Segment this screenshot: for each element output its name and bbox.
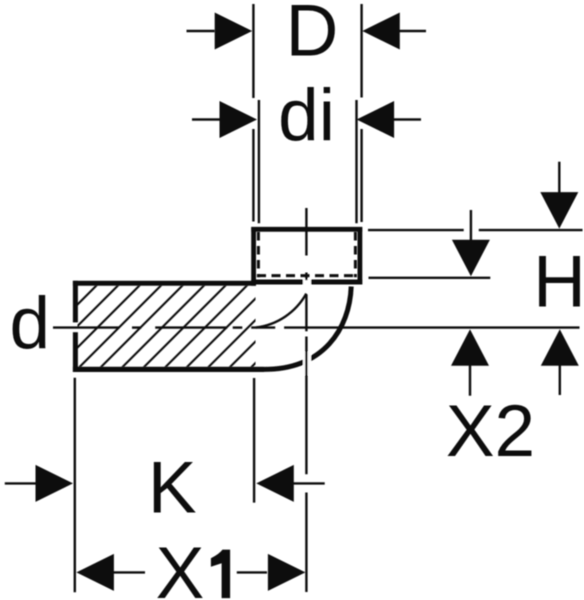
dimension line D right tail bbox=[399, 30, 426, 32]
svg-text:X2: X2 bbox=[446, 391, 535, 472]
dimension line di left tail bbox=[192, 118, 220, 120]
arrow X1 right bbox=[268, 554, 306, 591]
pipe bore inner arc bbox=[256, 294, 306, 328]
arrow H up bbox=[541, 329, 579, 366]
X1 dimension right tail bbox=[237, 571, 267, 573]
arrow D left bbox=[215, 13, 253, 50]
K dimension right tail bbox=[294, 482, 325, 484]
socket top edge bbox=[251, 227, 362, 232]
arrow H down bbox=[558, 162, 560, 193]
svg-text:d: d bbox=[9, 283, 50, 364]
X1 dimension left tail bbox=[113, 571, 146, 573]
gap patch on socket bottom edge bbox=[303, 279, 311, 285]
socket bottom edge bbox=[251, 280, 362, 285]
vertical centreline and X1 right extension bbox=[305, 208, 307, 592]
pipe left edge bbox=[73, 281, 78, 372]
gap patch on outer arc bbox=[303, 352, 311, 375]
extension line D right bbox=[360, 4, 362, 222]
socket bore dashed right bbox=[354, 232, 357, 277]
X2 top reference line bbox=[369, 277, 491, 279]
svg-text:X: X bbox=[156, 533, 205, 600]
extension line di left bbox=[258, 100, 260, 223]
pipe top edge bbox=[73, 281, 256, 286]
arrow K right bbox=[256, 465, 294, 502]
pipe left extension line bbox=[74, 378, 76, 593]
arrow D right bbox=[362, 13, 400, 50]
digit 1 of label X1 bbox=[211, 550, 230, 599]
socket bore dashed bottom bbox=[257, 274, 356, 277]
extension line di right bbox=[355, 100, 357, 223]
socket left edge bbox=[251, 227, 256, 286]
horizontal centreline d axis bbox=[53, 326, 580, 328]
arrow X1 left bbox=[76, 554, 114, 591]
pipe outer bend arc bbox=[264, 287, 351, 370]
extension line D left bbox=[252, 4, 254, 222]
arrow di right bbox=[357, 101, 395, 138]
arrow di left bbox=[220, 101, 258, 138]
svg-text:K: K bbox=[148, 448, 197, 529]
arrow X2 down bbox=[470, 210, 472, 241]
svg-text:D: D bbox=[286, 0, 339, 71]
hatching of pipe section bbox=[0, 280, 339, 372]
socket bore dashed left bbox=[257, 232, 260, 277]
K right extension line bbox=[253, 378, 255, 503]
pipe bottom edge bbox=[73, 367, 264, 372]
H top reference line bbox=[368, 229, 583, 231]
socket right edge bbox=[357, 227, 362, 284]
arrow K left bbox=[36, 465, 74, 502]
arrow X2 up bbox=[451, 329, 489, 366]
dimension line D left tail bbox=[187, 30, 215, 32]
dimension line di right tail bbox=[394, 118, 421, 120]
svg-text:H: H bbox=[533, 242, 584, 323]
svg-text:di: di bbox=[278, 75, 335, 156]
K dimension left tail bbox=[5, 482, 37, 484]
